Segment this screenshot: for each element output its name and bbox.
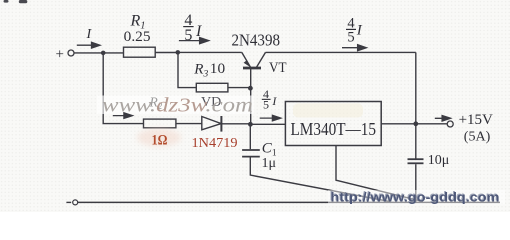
svg-text:5: 5 — [263, 97, 269, 111]
capacitor C2 top plate — [408, 158, 424, 160]
scan highlight inside regulator box — [293, 104, 363, 118]
transistor VT collector lead — [257, 52, 266, 67]
capacitor C2 bottom lead — [415, 164, 417, 202]
wire R1 to node B — [155, 52, 177, 54]
svg-text:1Ω: 1Ω — [152, 132, 168, 148]
ground rail — [78, 201, 500, 203]
wire R2 to diode VD — [176, 123, 202, 125]
capacitor C1 top lead — [249, 124, 251, 149]
ground terminal circle — [73, 200, 78, 205]
node A junction dot — [101, 51, 106, 56]
capacitor C1 top plate — [242, 149, 260, 151]
svg-text:I: I — [195, 23, 202, 40]
arrow 4/5I top-left — [179, 38, 209, 44]
svg-text:http://www.go-gddq.com: http://www.go-gddq.com — [331, 189, 500, 204]
svg-text:+15V: +15V — [459, 112, 494, 128]
wire node A down to R2 branch — [103, 53, 143, 124]
wire LM340 input node to regulator — [250, 123, 285, 125]
svg-text:VT: VT — [269, 60, 287, 76]
+ input terminal — [68, 50, 74, 56]
svg-text:5: 5 — [184, 27, 192, 44]
svg-text:0.25: 0.25 — [124, 29, 151, 45]
capacitor C1 bottom lead to ground — [250, 158, 390, 202]
wire input to node A — [74, 52, 103, 54]
diode VD anode-cathode — [202, 117, 221, 130]
svg-text:1N4719: 1N4719 — [192, 135, 238, 150]
input current arrow — [77, 42, 100, 48]
red ink bleed glow under R2 value — [137, 129, 181, 147]
diode VD cathode bar — [220, 116, 222, 132]
wire base node down to input node of LM340 — [250, 88, 252, 124]
capacitor C1 bottom plate — [242, 156, 260, 158]
LM340 ground pin lead — [336, 146, 423, 202]
svg-text:10: 10 — [210, 61, 225, 77]
wire diode to LM340 input node — [221, 123, 250, 125]
svg-text:LM340T—15: LM340T—15 — [291, 119, 377, 139]
resistor R1 — [124, 47, 156, 57]
base node junction dot — [248, 86, 253, 91]
arrow 4/5I top-right — [342, 45, 366, 51]
svg-text:2N4398: 2N4398 — [232, 31, 281, 50]
wire R3 to base node — [228, 87, 250, 89]
capacitor C2 bottom plate — [408, 162, 424, 164]
svg-text:5: 5 — [347, 30, 354, 46]
svg-text:1μ: 1μ — [262, 156, 277, 171]
wire collector to right corner — [266, 51, 416, 53]
node B junction dot — [176, 50, 181, 55]
wire node B to VT emitter — [178, 51, 242, 53]
capacitor C2 top lead — [415, 124, 417, 159]
scan speck top-left 1 — [4, 0, 9, 3]
svg-text:(5A): (5A) — [464, 129, 491, 144]
wire node A to R1 — [103, 52, 123, 54]
svg-text:10μ: 10μ — [428, 153, 450, 168]
svg-text:+: + — [56, 47, 64, 63]
VT emitter arrowhead — [244, 60, 251, 67]
scan speck top-left 2 — [19, 0, 28, 3]
svg-text:I: I — [356, 23, 363, 39]
wire node B down to R3 — [178, 52, 196, 87]
transistor VT emitter lead — [242, 52, 251, 67]
arrow R2 branch — [113, 113, 133, 119]
LM340 input node junction dot — [248, 122, 253, 127]
wire right vertical to output node — [415, 52, 417, 123]
wire LM340 output to node C — [381, 123, 416, 125]
minus lead dash — [66, 201, 71, 203]
watermark go-gddq halo — [328, 190, 505, 205]
resistor R3 — [196, 83, 228, 92]
transistor VT base bar — [243, 67, 261, 70]
transistor VT base lead — [250, 69, 252, 88]
arrow into LM340 — [260, 115, 281, 121]
node C junction dot — [413, 121, 418, 126]
arrow to +15V output — [435, 116, 451, 122]
wire node C to output terminal — [416, 123, 447, 125]
watermark dz3w white halo — [97, 96, 254, 115]
+15V output terminal — [447, 121, 453, 127]
regulator U1 LM340T-15 box — [285, 102, 381, 146]
resistor R2 — [144, 119, 176, 128]
